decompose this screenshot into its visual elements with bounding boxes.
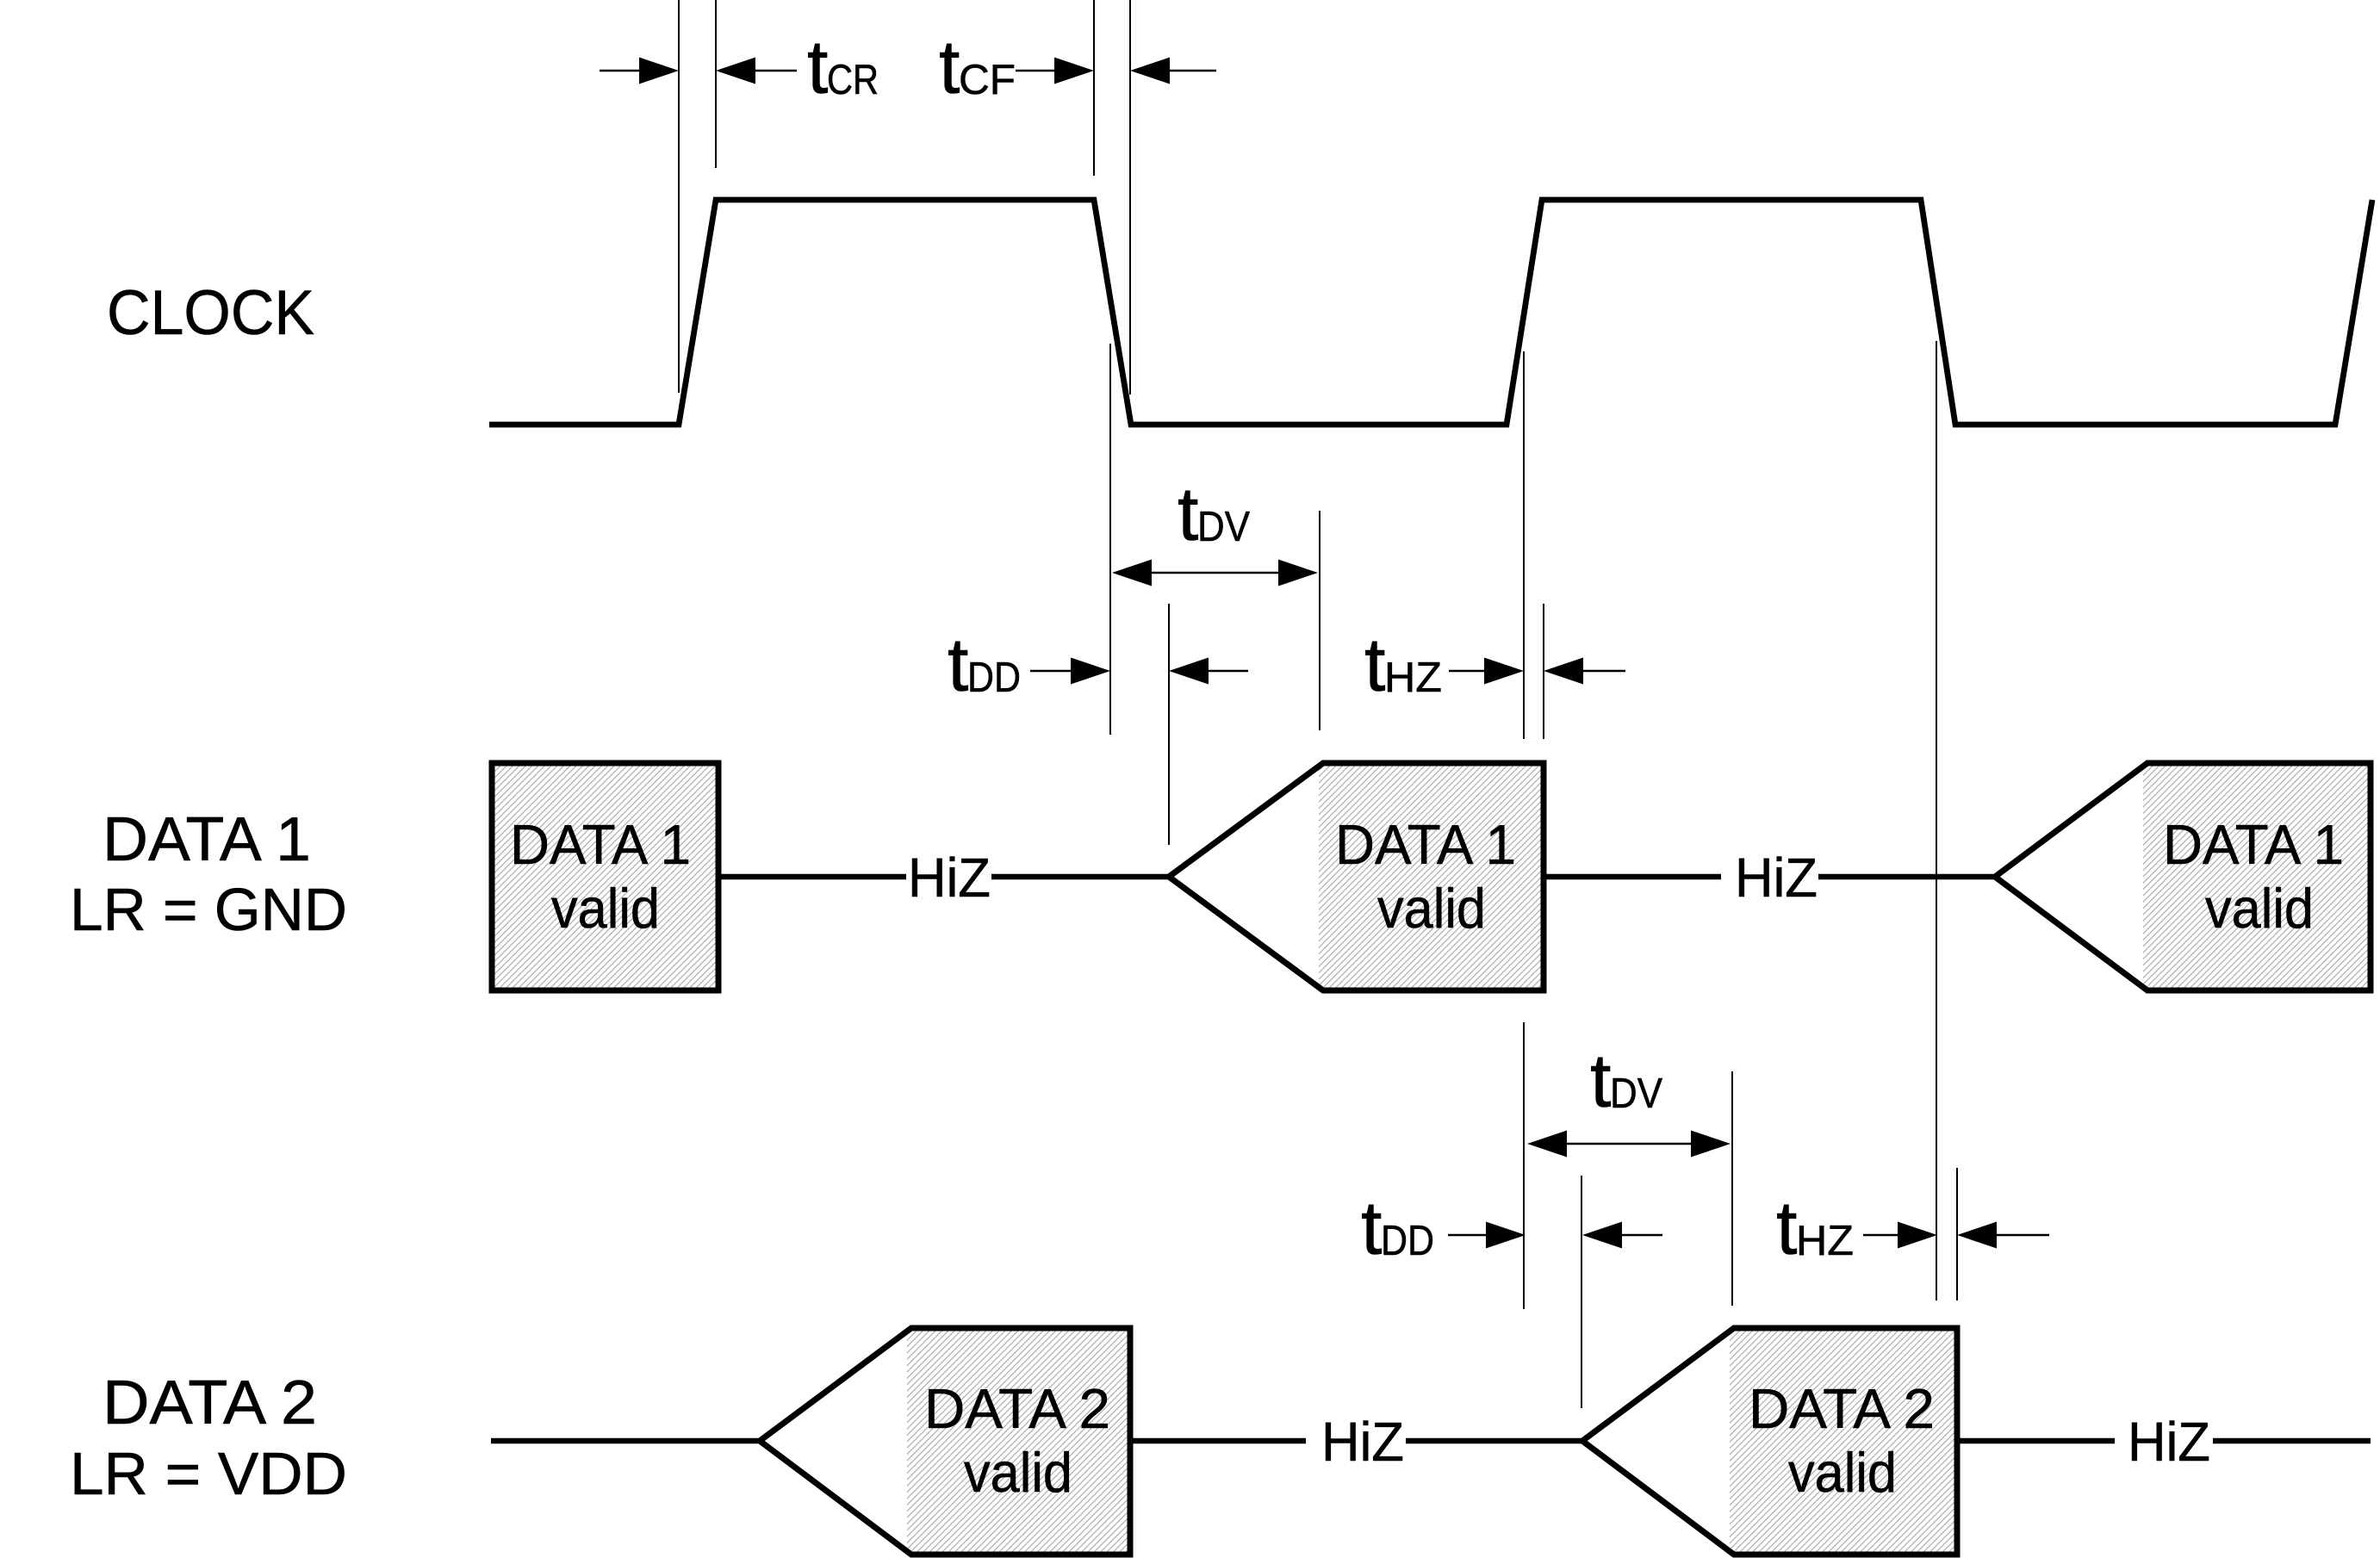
arrow pointing left at tDD right reference (DATA 1) xyxy=(1169,658,1248,685)
label tHZ (DATA 2) xyxy=(1776,1185,1854,1270)
svg-text:DATA 1: DATA 1 xyxy=(510,813,691,876)
svg-text:DATA 2: DATA 2 xyxy=(103,1369,317,1437)
svg-text:t: t xyxy=(1364,622,1385,707)
arrow pointing left at tCF right reference xyxy=(1130,58,1216,84)
dimension line at DATA1 valid right edge (x=1792) xyxy=(1543,604,1544,739)
label tCF xyxy=(939,24,1016,109)
DATA1 valid pentagon 2 xyxy=(1169,763,1544,990)
dimension line at clock fall 1 end (x=1313) xyxy=(1129,0,1131,394)
svg-text:HiZ: HiZ xyxy=(1735,847,1818,909)
label DATA 1 / LR = GND xyxy=(70,805,347,943)
svg-text:LR = VDD: LR = VDD xyxy=(70,1440,347,1507)
label HiZ (DATA 1 first) xyxy=(908,847,991,909)
arrow pointing right at tCR left reference xyxy=(600,58,679,84)
DATA2 valid pentagon 2 xyxy=(1582,1328,1957,1555)
DATA1 HiZ line segment 3 xyxy=(1544,874,1721,880)
dimension line from clock fall 2 midpoint (x=2248) xyxy=(1936,341,1937,1300)
DATA1 HiZ line segment 4 xyxy=(1818,874,1995,880)
svg-text:DATA 2: DATA 2 xyxy=(924,1377,1110,1440)
DATA2 HiZ line segment 1 xyxy=(491,1438,760,1444)
DATA1 valid pentagon 3 (right edge) xyxy=(1995,763,2371,990)
dimension line at DATA1 valid corner (x=1530) xyxy=(1319,511,1320,730)
DATA2 HiZ line segment 5 xyxy=(2213,1438,2371,1444)
label tDD (DATA 1) xyxy=(948,622,1021,707)
dimension line from clock rise 2 midpoint (x=1769) lower xyxy=(1523,1022,1525,1309)
DATA2 valid pentagon 1 xyxy=(760,1328,1130,1555)
dimension line from clock rise 2 midpoint (x=1769) upper xyxy=(1523,351,1525,739)
DATA1 HiZ line segment 1 xyxy=(718,874,906,880)
arrow pointing right at tDD left reference (DATA 1) xyxy=(1030,658,1110,685)
svg-text:DATA 1: DATA 1 xyxy=(1335,813,1516,876)
svg-text:valid: valid xyxy=(1788,1441,1897,1504)
svg-text:CLOCK: CLOCK xyxy=(107,278,314,348)
svg-text:DATA 1: DATA 1 xyxy=(103,805,311,874)
dimension line at DATA2 valid right edge (x=2272) xyxy=(1956,1168,1958,1300)
svg-text:CF: CF xyxy=(959,57,1016,103)
DATA1 HiZ line segment 2 xyxy=(991,874,1169,880)
arrow pointing right at tCF left reference xyxy=(1016,58,1094,84)
dimension line at clock rise 1 start (x=788) xyxy=(678,0,680,393)
arrow pointing right at tHZ left reference (DATA 2) xyxy=(1863,1222,1937,1249)
label tHZ (DATA 1) xyxy=(1364,622,1442,707)
arrow pointing left at tHZ right reference (DATA 2) xyxy=(1957,1222,2049,1249)
DATA2 HiZ line segment 2 xyxy=(1130,1438,1306,1444)
dimension line at clock fall 1 start (x=1270) xyxy=(1093,0,1095,176)
svg-text:valid: valid xyxy=(1377,877,1486,940)
svg-text:DD: DD xyxy=(967,655,1021,701)
dimension line at DATA2 pentagon point (x=1838) xyxy=(1581,1176,1582,1408)
svg-text:t: t xyxy=(1178,471,1198,556)
arrow pointing left at tCR right reference xyxy=(716,58,797,84)
double arrow tDV (DATA 2) xyxy=(1527,1131,1731,1158)
label CLOCK xyxy=(107,278,314,348)
svg-text:t: t xyxy=(1361,1185,1382,1270)
svg-text:t: t xyxy=(939,24,960,109)
svg-text:HiZ: HiZ xyxy=(908,847,991,909)
arrow pointing right at tDD left reference (DATA 2) xyxy=(1448,1222,1526,1249)
svg-text:LR = GND: LR = GND xyxy=(70,876,347,943)
label HiZ (DATA 2 first) xyxy=(1321,1411,1404,1473)
svg-text:valid: valid xyxy=(964,1441,1072,1504)
svg-text:t: t xyxy=(1776,1185,1797,1270)
clock waveform xyxy=(489,200,2372,425)
svg-text:HiZ: HiZ xyxy=(2128,1411,2210,1473)
DATA2 HiZ line segment 3 xyxy=(1406,1438,1582,1444)
arrow pointing left at tDD right reference (DATA 2) xyxy=(1582,1222,1662,1249)
svg-text:valid: valid xyxy=(551,877,660,940)
label tDV (DATA 1) xyxy=(1178,471,1250,556)
arrow pointing left at tHZ right reference (DATA 1) xyxy=(1544,658,1625,685)
svg-text:HiZ: HiZ xyxy=(1321,1411,1404,1473)
arrow pointing right at tHZ left reference (DATA 1) xyxy=(1449,658,1524,685)
label tDV (DATA 2) xyxy=(1590,1038,1662,1123)
svg-text:HZ: HZ xyxy=(1384,655,1442,701)
dimension line at DATA2 valid corner (x=2009) xyxy=(1731,1071,1733,1306)
svg-text:t: t xyxy=(1590,1038,1611,1123)
svg-text:t: t xyxy=(807,24,828,109)
dimension line at clock rise 1 end (x=831) xyxy=(715,0,717,168)
svg-text:t: t xyxy=(948,622,968,707)
double arrow tDV (DATA 1) xyxy=(1112,560,1318,587)
DATA2 HiZ line segment 4 xyxy=(1957,1438,2115,1444)
svg-text:DD: DD xyxy=(1381,1218,1434,1264)
svg-text:HZ: HZ xyxy=(1796,1218,1854,1264)
svg-text:CR: CR xyxy=(827,57,879,103)
label tCR xyxy=(807,24,879,109)
label HiZ (DATA 2 second) xyxy=(2128,1411,2210,1473)
dimension line at DATA1 pentagon point (x=1357) xyxy=(1168,604,1170,845)
label HiZ (DATA 1 second) xyxy=(1735,847,1818,909)
DATA1 valid box 1 xyxy=(492,763,718,990)
svg-text:valid: valid xyxy=(2205,877,2314,940)
svg-text:DV: DV xyxy=(1610,1071,1662,1117)
dimension line from clock fall 1 midpoint (x=1289) xyxy=(1109,344,1111,735)
label DATA 2 / LR = VDD xyxy=(70,1369,347,1507)
svg-text:DATA 1: DATA 1 xyxy=(2163,813,2344,876)
svg-text:DATA 2: DATA 2 xyxy=(1749,1377,1935,1440)
svg-text:DV: DV xyxy=(1197,504,1250,550)
label tDD (DATA 2) xyxy=(1361,1185,1434,1270)
